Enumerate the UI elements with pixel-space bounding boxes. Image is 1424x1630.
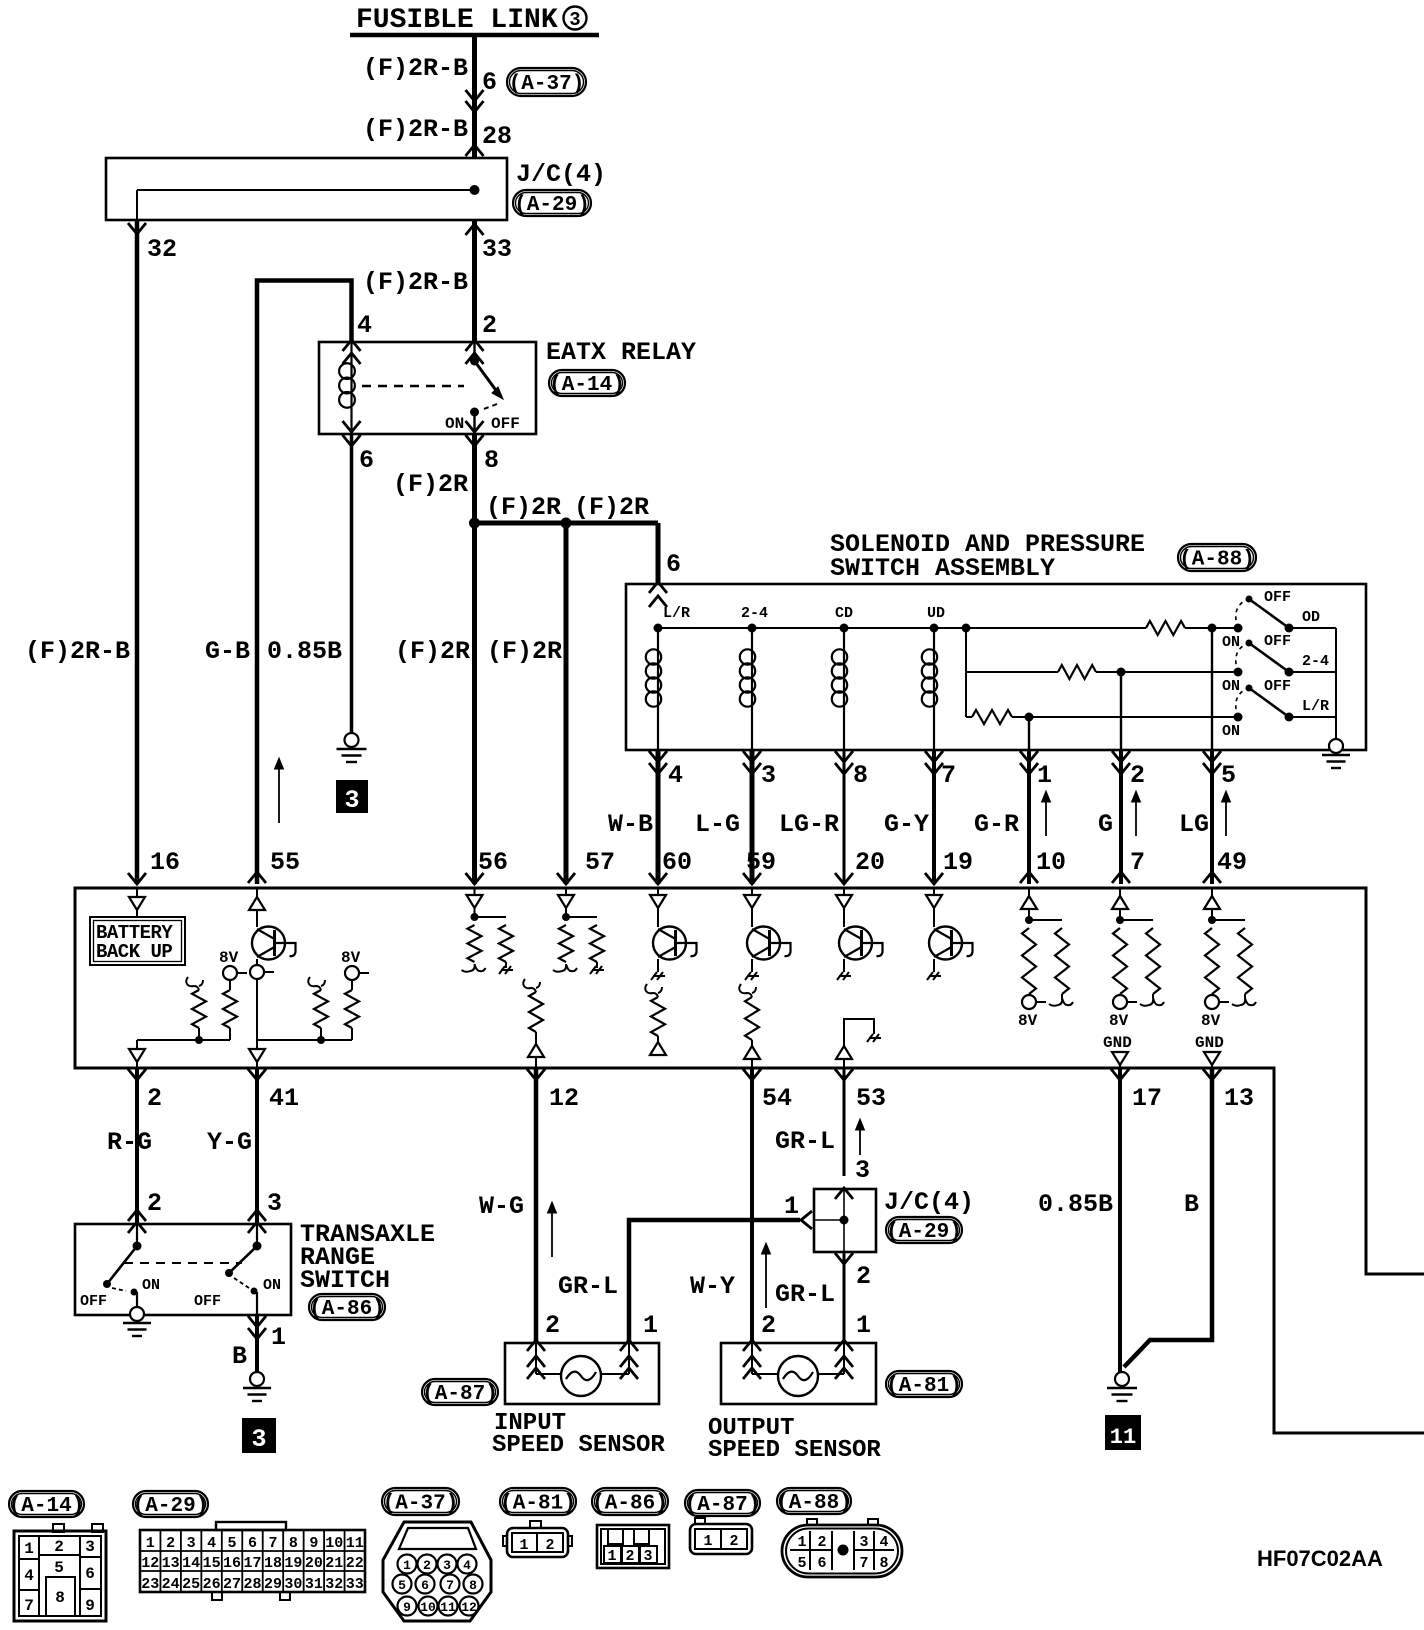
wire GR-L input sensor to J/C	[629, 1220, 800, 1343]
connector A-81 label	[500, 1488, 576, 1515]
connector A-88 drawing	[807, 1519, 817, 1525]
svg-text:1: 1	[519, 1537, 528, 1554]
svg-text:1: 1	[703, 1533, 712, 1550]
direction arrow G	[1135, 797, 1137, 836]
svg-text:8V: 8V	[1109, 1012, 1129, 1030]
svg-text:21: 21	[325, 1555, 343, 1572]
svg-text:4: 4	[357, 311, 372, 340]
svg-text:9: 9	[403, 1600, 411, 1615]
solenoid pin 4 exit	[649, 751, 667, 762]
svg-text:0.85B: 0.85B	[267, 637, 342, 666]
svg-text:7: 7	[24, 1597, 34, 1615]
solenoid assembly box	[626, 584, 1366, 750]
svg-text:41: 41	[269, 1084, 299, 1113]
svg-text:5: 5	[54, 1559, 64, 1577]
ground symbol solenoid box	[1329, 739, 1343, 753]
svg-text:1: 1	[607, 1548, 616, 1565]
svg-text:LG-R: LG-R	[779, 810, 839, 839]
svg-text:11: 11	[1110, 1425, 1136, 1450]
solenoid coil L/R	[654, 624, 663, 633]
svg-text:10: 10	[420, 1600, 436, 1615]
connector A-37 drawing	[383, 1522, 491, 1621]
ECU pin 10 terminal	[1020, 872, 1038, 883]
svg-text:3: 3	[251, 1425, 266, 1454]
svg-text:UD: UD	[927, 605, 945, 622]
node: bus junction to switch network	[962, 624, 971, 633]
svg-text:2: 2	[545, 1537, 554, 1554]
svg-text:27: 27	[223, 1576, 241, 1593]
svg-text:1: 1	[1037, 761, 1052, 790]
svg-text:OFF: OFF	[1264, 589, 1291, 606]
svg-text:4: 4	[668, 761, 683, 790]
junction dot 2	[561, 518, 572, 529]
svg-text:11: 11	[346, 1535, 364, 1552]
svg-text:(A-87): (A-87)	[422, 1383, 498, 1406]
elbow pin53 internal	[844, 1019, 874, 1046]
svg-text:18: 18	[264, 1555, 282, 1572]
ECU bottom pin 13	[1203, 1069, 1221, 1080]
svg-text:L/R: L/R	[1302, 698, 1329, 715]
input speed sensor box	[505, 1343, 659, 1404]
transistor pin59	[751, 888, 753, 895]
8V supply circle	[223, 966, 237, 980]
svg-text:1: 1	[271, 1323, 286, 1352]
range switch contact 2	[256, 1224, 258, 1246]
svg-text:6: 6	[817, 1555, 826, 1572]
terminal J/C pin 1	[801, 1211, 812, 1229]
J/C internal bus	[137, 189, 475, 191]
direction arrow LG	[1225, 797, 1227, 836]
svg-text:13: 13	[162, 1555, 180, 1572]
connector A-29 drawing	[216, 1522, 286, 1530]
wire (F)2R horizontal branch	[475, 521, 659, 526]
svg-text:4: 4	[879, 1534, 888, 1551]
svg-text:4: 4	[463, 1558, 471, 1573]
solenoid pin 7 exit	[925, 751, 943, 762]
connector ref A-87 at sensor	[422, 1379, 498, 1405]
pressure switch OD	[1234, 624, 1243, 633]
svg-text:ON: ON	[1222, 634, 1240, 651]
svg-text:R-G: R-G	[107, 1128, 152, 1157]
svg-text:B: B	[232, 1342, 247, 1371]
svg-text:(F)2R: (F)2R	[486, 493, 561, 522]
wire G-B relay pin4 to ECU pin55	[257, 281, 352, 885]
svg-text:54: 54	[762, 1084, 792, 1113]
svg-text:1: 1	[403, 1558, 411, 1573]
svg-text:9: 9	[309, 1535, 318, 1552]
svg-text:6: 6	[482, 68, 497, 97]
wire (F)2R to ECU pin57	[564, 523, 569, 884]
svg-text:30: 30	[284, 1576, 302, 1593]
wire R-G ECU pin2 to range switch	[135, 1068, 139, 1224]
svg-text:2: 2	[54, 1538, 64, 1556]
direction arrow W-G	[551, 1208, 553, 1257]
wire Y-G ECU pin41 to range switch	[255, 1068, 259, 1224]
ECU pin 7 terminal	[1112, 872, 1130, 883]
solenoid internal bus	[658, 627, 1146, 629]
wire pin1 internal	[1028, 717, 1030, 750]
ground symbol under relay pin 6	[345, 733, 359, 747]
svg-text:2: 2	[625, 1548, 634, 1565]
ground ref black box 3 lower	[242, 1418, 276, 1453]
ECU bottom pin 54	[743, 1069, 761, 1080]
svg-text:26: 26	[203, 1576, 221, 1593]
svg-text:2: 2	[423, 1558, 431, 1573]
solenoid coil UD	[930, 624, 939, 633]
svg-text:SPEED SENSOR: SPEED SENSOR	[492, 1432, 665, 1459]
svg-text:OFF: OFF	[491, 415, 520, 433]
svg-text:14: 14	[182, 1555, 200, 1572]
connector ref A-29	[513, 190, 591, 216]
svg-text:J/C(4): J/C(4)	[884, 1188, 974, 1217]
solenoid pin 1 exit	[1020, 751, 1038, 762]
ECU pin 19 terminal	[925, 873, 943, 884]
svg-text:1: 1	[856, 1311, 871, 1340]
svg-text:(A-86): (A-86)	[309, 1298, 385, 1321]
connector A-37 label	[382, 1488, 459, 1515]
junction dot J/C	[470, 185, 480, 195]
connector ref A-88 top	[1178, 544, 1256, 571]
svg-text:(A-81): (A-81)	[500, 1493, 576, 1516]
svg-text:10: 10	[1036, 848, 1066, 877]
pressure switch L/R	[1234, 713, 1243, 722]
svg-text:W-G: W-G	[479, 1192, 524, 1221]
ECU pin 57 terminal	[557, 873, 575, 884]
svg-text:2: 2	[545, 1311, 560, 1340]
svg-text:(F)2R-B: (F)2R-B	[363, 268, 468, 297]
solenoid coil 2-4	[748, 624, 757, 633]
svg-text:19: 19	[284, 1555, 302, 1572]
svg-text:28: 28	[243, 1576, 261, 1593]
svg-text:17: 17	[243, 1555, 261, 1572]
pressure switch 2-4	[1234, 668, 1243, 677]
svg-text:2-4: 2-4	[741, 605, 768, 622]
svg-text:(A-37): (A-37)	[509, 73, 585, 96]
svg-text:5: 5	[398, 1578, 406, 1593]
svg-text:1: 1	[784, 1192, 799, 1221]
svg-text:55: 55	[270, 848, 300, 877]
svg-text:2: 2	[166, 1535, 175, 1552]
wire pin5 internal	[1211, 628, 1213, 750]
svg-text:3: 3	[344, 786, 359, 815]
connector ref A-14	[549, 370, 625, 396]
svg-text:LG: LG	[1179, 810, 1209, 839]
svg-text:10: 10	[325, 1535, 343, 1552]
wire B to ground	[255, 1315, 259, 1372]
svg-text:ON: ON	[1222, 678, 1240, 695]
svg-text:59: 59	[746, 848, 776, 877]
svg-text:2: 2	[147, 1084, 162, 1113]
svg-text:19: 19	[943, 848, 973, 877]
svg-text:ON: ON	[1222, 723, 1240, 740]
svg-text:60: 60	[662, 848, 692, 877]
sensor generator symbol	[561, 1356, 601, 1396]
connector A-14 drawing	[53, 1524, 64, 1532]
svg-text:EATX RELAY: EATX RELAY	[546, 338, 696, 367]
svg-text:OFF: OFF	[194, 1293, 221, 1310]
svg-text:(A-88): (A-88)	[776, 1492, 852, 1515]
svg-text:SPEED SENSOR: SPEED SENSOR	[708, 1437, 881, 1464]
resistor top row (OD)	[1146, 621, 1185, 635]
svg-text:OD: OD	[1302, 609, 1320, 626]
svg-text:4: 4	[207, 1535, 216, 1552]
resistor pair pin57	[565, 888, 567, 895]
svg-text:2: 2	[856, 1262, 871, 1291]
svg-text:6: 6	[85, 1565, 95, 1583]
svg-text:(A-81): (A-81)	[886, 1375, 962, 1398]
svg-text:(F)2R: (F)2R	[574, 493, 649, 522]
svg-text:1: 1	[146, 1535, 155, 1552]
svg-text:2-4: 2-4	[1302, 653, 1329, 670]
svg-text:(A-87): (A-87)	[685, 1494, 761, 1517]
svg-text:3: 3	[187, 1535, 196, 1552]
svg-text:G-Y: G-Y	[884, 810, 929, 839]
svg-text:3: 3	[761, 761, 776, 790]
svg-text:3: 3	[855, 1156, 870, 1185]
svg-text:6: 6	[248, 1535, 257, 1552]
svg-text:3: 3	[569, 9, 580, 31]
svg-text:2: 2	[147, 1189, 162, 1218]
connector A-86 drawing	[597, 1525, 669, 1568]
ground symbol below range switch	[250, 1372, 264, 1386]
svg-text:3: 3	[859, 1534, 868, 1551]
terminal pin 33	[466, 224, 484, 235]
svg-text:6: 6	[359, 446, 374, 475]
svg-text:8V: 8V	[1018, 1012, 1038, 1030]
wire (F)2R relay pin8 to ECU pin56	[472, 434, 477, 884]
svg-text:7: 7	[859, 1555, 868, 1572]
svg-text:J/C(4): J/C(4)	[516, 160, 606, 189]
svg-text:3: 3	[267, 1189, 282, 1218]
svg-text:8: 8	[55, 1589, 65, 1607]
svg-text:L-G: L-G	[695, 810, 740, 839]
svg-text:W-Y: W-Y	[690, 1272, 735, 1301]
junction connector J/C(4) A-29 box	[106, 158, 507, 220]
svg-text:8V: 8V	[341, 949, 361, 967]
solenoid pin 2 exit	[1112, 751, 1130, 762]
sensor generator symbol output	[778, 1356, 818, 1396]
fusible link underline	[350, 33, 599, 38]
direction arrow GR-L lower	[765, 1249, 767, 1308]
svg-text:2: 2	[817, 1534, 826, 1551]
ECU pin 49 terminal	[1203, 872, 1221, 883]
svg-text:24: 24	[162, 1576, 180, 1593]
ECU bottom pin 2	[128, 1069, 146, 1080]
pull network pin7 (GND to pin17)	[1119, 888, 1121, 896]
svg-text:11: 11	[440, 1600, 456, 1615]
svg-text:6: 6	[666, 550, 681, 579]
svg-text:15: 15	[203, 1555, 221, 1572]
ECU pin 56 terminal	[466, 873, 484, 884]
ECU pin 20 terminal	[835, 873, 853, 884]
pull network pin10	[1028, 888, 1030, 896]
svg-text:8: 8	[484, 446, 499, 475]
svg-text:13: 13	[1224, 1084, 1254, 1113]
svg-text:B: B	[1184, 1190, 1199, 1219]
transistor pin19	[933, 888, 935, 895]
svg-text:2: 2	[482, 311, 497, 340]
solenoid pin 5 exit	[1203, 751, 1221, 762]
connector A-14 label	[9, 1491, 84, 1517]
svg-text:GR-L: GR-L	[775, 1127, 835, 1156]
ECU pin 60 terminal	[649, 873, 667, 884]
wire (F)2R-B from J/C pin32 to ECU pin16	[135, 220, 140, 884]
svg-text:G-B: G-B	[205, 637, 250, 666]
svg-text:3: 3	[85, 1538, 95, 1556]
J/C pin 2 exit	[835, 1253, 853, 1264]
ground ref black box 3	[336, 780, 368, 813]
svg-text:56: 56	[478, 848, 508, 877]
svg-text:1: 1	[643, 1311, 658, 1340]
svg-text:2: 2	[729, 1533, 738, 1550]
wire fusible link to J/C(4)	[472, 35, 477, 158]
relay coil	[350, 342, 352, 364]
svg-text:G-R: G-R	[974, 810, 1019, 839]
svg-text:7: 7	[446, 1578, 454, 1593]
svg-text:(A-14): (A-14)	[549, 374, 625, 397]
range switch pin 1 exit	[248, 1316, 266, 1327]
connector A-86 label	[592, 1488, 668, 1515]
J/C junction dot	[840, 1216, 849, 1225]
ground ref black box 11	[1105, 1415, 1141, 1450]
svg-text:W-B: W-B	[608, 810, 653, 839]
svg-text:CD: CD	[835, 605, 853, 622]
svg-text:(F)2R: (F)2R	[395, 637, 470, 666]
svg-text:(F)2R-B: (F)2R-B	[25, 637, 130, 666]
wire 0.85B ECU pin17 to ground	[1118, 1068, 1122, 1372]
junction connector J/C(4) lower box	[814, 1189, 876, 1252]
svg-text:HF07C02AA: HF07C02AA	[1257, 1546, 1383, 1571]
svg-text:8: 8	[289, 1535, 298, 1552]
ECU pin 59 terminal	[743, 873, 761, 884]
connector A-87 label	[685, 1490, 760, 1516]
terminal into J/C	[466, 145, 484, 156]
wire GR-L J/C to output sensor	[843, 1252, 846, 1343]
svg-text:ON: ON	[142, 1277, 160, 1294]
svg-text:4: 4	[24, 1567, 34, 1585]
svg-text:9: 9	[85, 1597, 95, 1615]
svg-text:(A-88): (A-88)	[1179, 549, 1255, 572]
svg-text:29: 29	[264, 1576, 282, 1593]
relay switch	[473, 342, 475, 361]
svg-text:5: 5	[797, 1555, 806, 1572]
svg-text:ON: ON	[445, 415, 464, 433]
svg-text:20: 20	[855, 848, 885, 877]
terminal pin 32	[128, 223, 146, 234]
pull network pin49 (GND to pin13)	[1211, 888, 1213, 896]
connector A-29 label	[133, 1491, 208, 1517]
direction arrow GR-L top	[859, 1125, 861, 1155]
connector ref A-37	[507, 68, 586, 96]
range switch dashed link	[124, 1262, 242, 1264]
svg-text:OFF: OFF	[1264, 633, 1291, 650]
wire pin2 internal	[1120, 672, 1122, 750]
svg-text:FUSIBLE LINK: FUSIBLE LINK	[356, 5, 558, 36]
svg-text:2: 2	[761, 1311, 776, 1340]
svg-text:57: 57	[585, 848, 615, 877]
resistor bottom row (L/R)	[966, 716, 972, 718]
svg-text:L/R: L/R	[663, 605, 690, 622]
connector ref A-86	[309, 1294, 385, 1320]
svg-text:(F)2R: (F)2R	[393, 470, 468, 499]
svg-text:1: 1	[797, 1534, 806, 1551]
ECU pin 16 terminal	[128, 873, 146, 884]
solenoid coil CD	[840, 624, 849, 633]
solenoid pin 8 exit	[835, 751, 853, 762]
relay actuation dashed link	[362, 385, 464, 387]
svg-text:20: 20	[305, 1555, 323, 1572]
ECU bottom pin 17	[1111, 1069, 1129, 1080]
svg-text:G: G	[1098, 810, 1113, 839]
svg-text:16: 16	[223, 1555, 241, 1572]
svg-text:GR-L: GR-L	[558, 1272, 618, 1301]
svg-text:17: 17	[1132, 1084, 1162, 1113]
svg-text:(F)2R-B: (F)2R-B	[363, 54, 468, 83]
svg-text:(A-29): (A-29)	[886, 1221, 962, 1244]
svg-text:OFF: OFF	[80, 1293, 107, 1310]
svg-text:3: 3	[643, 1548, 652, 1565]
resistor middle row (2-4)	[966, 671, 1058, 673]
svg-text:(A-37): (A-37)	[383, 1493, 459, 1516]
svg-text:53: 53	[856, 1084, 886, 1113]
svg-text:1: 1	[24, 1540, 34, 1558]
svg-text:8: 8	[469, 1578, 477, 1593]
range switch contact 1	[136, 1224, 138, 1246]
ground symbol range switch	[130, 1307, 144, 1321]
svg-text:5: 5	[228, 1535, 237, 1552]
direction arrow G-R	[1045, 797, 1047, 836]
svg-text:(A-29): (A-29)	[133, 1495, 209, 1518]
svg-text:23: 23	[141, 1576, 159, 1593]
svg-text:2: 2	[1130, 761, 1145, 790]
svg-text:8: 8	[853, 761, 868, 790]
svg-text:(F)2R-B: (F)2R-B	[363, 115, 468, 144]
resistor pin12 column	[523, 979, 540, 992]
ECU bottom pin 53	[835, 1069, 853, 1080]
connector A-88 label	[777, 1488, 851, 1514]
svg-text:OFF: OFF	[1264, 678, 1291, 695]
svg-text:(F)2R: (F)2R	[487, 637, 562, 666]
svg-text:28: 28	[482, 122, 512, 151]
svg-text:8V: 8V	[1201, 1012, 1221, 1030]
battery backup input pin16	[136, 888, 138, 897]
svg-text:49: 49	[1217, 848, 1247, 877]
junction dot	[469, 518, 480, 529]
svg-text:7: 7	[268, 1535, 277, 1552]
svg-text:12: 12	[141, 1555, 159, 1572]
resistor pair pin56	[474, 888, 476, 895]
svg-text:32: 32	[325, 1576, 343, 1593]
svg-text:(A-14): (A-14)	[9, 1495, 85, 1518]
svg-text:7: 7	[941, 761, 956, 790]
wire W-G ECU pin12 to input sensor	[534, 1068, 539, 1343]
svg-text:16: 16	[150, 848, 180, 877]
svg-text:5: 5	[1221, 761, 1236, 790]
svg-text:(A-29): (A-29)	[514, 194, 590, 217]
svg-text:ON: ON	[263, 1277, 281, 1294]
svg-text:33: 33	[346, 1576, 364, 1593]
connector A-87 drawing	[695, 1518, 705, 1524]
svg-text:Y-G: Y-G	[207, 1128, 252, 1157]
connector A-81 drawing	[530, 1521, 541, 1528]
svg-text:SWITCH: SWITCH	[300, 1266, 390, 1295]
ECU (TCM) box outline	[75, 888, 1424, 1433]
connector ref A-29 lower	[886, 1217, 962, 1243]
svg-text:BACK UP: BACK UP	[96, 941, 172, 963]
transaxle range switch box	[75, 1224, 291, 1315]
EATX relay A-14 box	[319, 342, 536, 434]
svg-text:GR-L: GR-L	[775, 1280, 835, 1309]
